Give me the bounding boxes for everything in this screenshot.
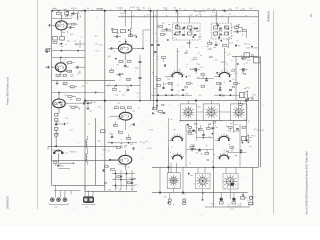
right margin fold line: [273, 10, 275, 214]
misc parts between V10 V12: [224, 145, 241, 156]
wire wafer interconnect: [197, 111, 231, 113]
label strip T1 header: [193, 10, 205, 17]
svg-text:EL84: EL84: [147, 14, 151, 16]
svg-text:R2: R2: [227, 39, 229, 41]
svg-text:2k2: 2k2: [164, 84, 167, 86]
capacitor C35: [198, 149, 201, 152]
wire V10 side vertical: [239, 124, 241, 167]
capacitor C5: [45, 66, 49, 69]
header text Ferson 8000 Radio.mod: [6, 77, 10, 105]
svg-text:2k2: 2k2: [212, 12, 215, 14]
resistor R27: [235, 27, 243, 29]
svg-text:T1: T1: [123, 166, 125, 168]
wire switch2 drops: [85, 185, 93, 196]
wire V2 anode up: [60, 57, 61, 63]
wire tone arm upper: [212, 121, 214, 167]
svg-text:C12: C12: [217, 111, 220, 113]
svg-text:R1: R1: [143, 143, 145, 145]
node J13: [159, 192, 161, 194]
svg-text:R1: R1: [59, 26, 61, 28]
resistor R43: [207, 125, 211, 129]
svg-text:T1: T1: [54, 138, 56, 140]
wire out row 2: [228, 152, 247, 153]
terminal TB1: [168, 193, 171, 205]
capacitor C17: [139, 62, 142, 79]
label cluster right bottom: [243, 196, 255, 202]
capacitor C26: [182, 89, 185, 92]
svg-text:EL84: EL84: [135, 68, 139, 70]
wire det row: [107, 142, 137, 143]
svg-text:2k2: 2k2: [122, 95, 125, 97]
resistor R14: [55, 119, 58, 122]
svg-text:5k6: 5k6: [164, 197, 167, 199]
resistor R7: [56, 75, 67, 77]
misc parts top-right corner: [242, 46, 253, 64]
wire vertical bus C: [104, 11, 106, 192]
label cluster V3: [63, 82, 97, 112]
switch wafer S1b: [203, 104, 219, 121]
node J4: [176, 10, 178, 12]
svg-text:ECH81: ECH81: [216, 31, 222, 33]
svg-text:300: 300: [124, 147, 127, 149]
wire right drop to output: [252, 167, 254, 205]
svg-text:C22: C22: [136, 93, 139, 95]
svg-text:2k2: 2k2: [130, 144, 133, 146]
resistor R39: [117, 147, 121, 149]
svg-text:29/09/2002: 29/09/2002: [6, 195, 10, 209]
svg-text:R2: R2: [214, 9, 216, 11]
wire padder column: [139, 55, 140, 101]
svg-text:50p: 50p: [132, 111, 135, 113]
capacitor C3: [67, 26, 75, 29]
component row above V5: [115, 107, 132, 113]
node J7: [104, 100, 106, 102]
svg-text:EF41: EF41: [246, 88, 251, 90]
svg-text:EM80: EM80: [161, 31, 166, 33]
component small box on bus C: [101, 130, 106, 133]
capacitor C16: [127, 86, 130, 91]
svg-text:0.1: 0.1: [88, 124, 91, 126]
resistor R29: [208, 40, 212, 44]
terminal box right: [254, 57, 260, 63]
node A: [235, 45, 240, 48]
wire AGC junction row: [52, 50, 86, 51]
svg-text:R7: R7: [185, 28, 187, 30]
T2 trimmer caps: [219, 28, 222, 35]
label right mid: [241, 69, 264, 138]
misc parts above V10: [213, 120, 237, 135]
terminal strip right: [241, 193, 245, 200]
svg-text:100k: 100k: [247, 60, 251, 62]
capacitor C33: [192, 129, 195, 132]
svg-text:0.05: 0.05: [95, 50, 99, 52]
label cluster right edge: [246, 44, 259, 64]
svg-text:R2: R2: [127, 167, 129, 169]
svg-text:300: 300: [154, 89, 157, 91]
svg-text:220p: 220p: [70, 87, 74, 89]
wire osc bottom row: [152, 95, 176, 96]
capacitor C10: [55, 121, 58, 125]
wire right column down: [235, 56, 237, 100]
svg-text:4k7: 4k7: [127, 137, 130, 139]
misc parts V2 area: [52, 64, 77, 77]
capacitor C2: [71, 12, 77, 14]
svg-text:5k6: 5k6: [86, 8, 89, 10]
resistor R15: [55, 128, 58, 131]
wire top secondary bus: [118, 16, 259, 18]
resistor R17: [54, 162, 57, 167]
label strip T2 header: [212, 11, 228, 15]
svg-text:R2: R2: [197, 77, 199, 79]
node J2: [104, 10, 106, 12]
wire T2 drop right: [227, 17, 229, 23]
coil L3: [86, 148, 87, 165]
svg-text:IF280505: IF280505: [267, 10, 271, 22]
wire V9 grid vertical: [185, 124, 187, 167]
svg-text:0.1: 0.1: [228, 204, 231, 206]
misc parts bias chain: [55, 114, 60, 142]
wire AF vertical left: [168, 118, 170, 146]
resistor R8: [63, 83, 67, 85]
svg-text:5k6: 5k6: [228, 9, 231, 11]
tube V9 AF driver dome: [170, 134, 184, 141]
T2 secondary coil: [225, 26, 229, 35]
svg-text:EM80: EM80: [118, 164, 123, 166]
cluster left of wafers: [153, 105, 166, 114]
resistor R49: [201, 74, 205, 80]
svg-text:50p: 50p: [108, 142, 111, 144]
resistor R3: [53, 37, 65, 40]
wire V10 grid vertical: [233, 121, 235, 133]
capacitor C18: [163, 28, 171, 31]
svg-text:4k7: 4k7: [95, 92, 98, 94]
svg-text:R7: R7: [71, 8, 73, 10]
wire V6 down: [124, 164, 126, 170]
svg-text:50p: 50p: [99, 45, 102, 47]
resistor R16: [55, 130, 58, 136]
coil L1: [77, 11, 78, 20]
capacitor C27: [219, 84, 222, 90]
wire tone arm vertical: [212, 167, 214, 207]
wire V7 cathode row: [167, 95, 192, 96]
resistor R37: [119, 132, 123, 134]
wire second bus ticks: [122, 15, 245, 17]
wire bottom chassis segment: [85, 190, 137, 192]
svg-text:xxxx: xxxx: [230, 209, 234, 211]
capacitor C8: [65, 102, 92, 105]
wire switch drops: [54, 185, 81, 197]
wire right frame inner: [259, 56, 261, 167]
svg-text:file:///C|/WINDOWS/Desktop/mod: file:///C|/WINDOWS/Desktop/mod/Ferson 80…: [306, 151, 309, 214]
svg-text:R15: R15: [52, 150, 55, 152]
svg-text:EABC80: EABC80: [257, 129, 264, 132]
wire k stub: [80, 41, 85, 49]
wire V8 cathode row: [214, 95, 240, 96]
node J10: [245, 100, 247, 102]
wire oscillator vertical 1: [150, 11, 152, 101]
wire osc row: [52, 92, 105, 93]
label cluster V13: [52, 150, 76, 168]
svg-text:C4: C4: [60, 12, 62, 14]
label cluster belowT2: [208, 42, 247, 51]
svg-text:EL84: EL84: [149, 129, 153, 131]
wire top tick marks: [55, 9, 241, 11]
svg-text:T1: T1: [138, 108, 140, 110]
antenna terminal: [52, 8, 61, 11]
IF transformer T2 box: [211, 23, 231, 39]
wire oscillator vertical 3: [156, 11, 158, 110]
svg-text:C12: C12: [176, 13, 179, 15]
svg-text:100k: 100k: [229, 42, 233, 44]
tube V5 IF amp EF41: [119, 112, 132, 120]
misc parts V7 area: [173, 64, 200, 94]
resistor R50: [201, 86, 205, 88]
capacitor C20: [162, 82, 165, 88]
svg-text:470k: 470k: [214, 15, 218, 17]
page number 1/1: [309, 13, 313, 17]
node J12: [168, 167, 170, 169]
resistor R40: [117, 176, 131, 184]
resistor R31: [239, 101, 243, 106]
label cluster V1: [59, 8, 77, 43]
svg-text:4k7: 4k7: [164, 9, 167, 11]
wire bias line: [48, 145, 118, 147]
capacitor C34: [202, 130, 205, 135]
svg-text:100k: 100k: [120, 47, 124, 49]
switch wafer S2a: [167, 173, 180, 189]
wire oscillator vertical 2: [153, 11, 155, 110]
capacitor C13: [108, 47, 118, 50]
resistor R47: [242, 127, 246, 129]
capacitor C22: [215, 41, 218, 45]
svg-text:AZ41: AZ41: [222, 61, 227, 64]
capacitor C28: [229, 89, 232, 92]
svg-text:10n: 10n: [199, 95, 202, 97]
wire AF row 3: [186, 149, 213, 150]
misc parts T2 innards: [214, 23, 233, 38]
svg-text:EF41: EF41: [242, 69, 247, 71]
svg-text:C22: C22: [62, 62, 65, 64]
svg-text:1M: 1M: [190, 14, 193, 16]
resistor R28: [243, 30, 247, 32]
svg-text:C4: C4: [236, 41, 238, 43]
capacitor C23 big: [192, 68, 200, 71]
svg-text:R7: R7: [57, 76, 59, 78]
resistor R26: [157, 79, 161, 87]
svg-text:300: 300: [135, 185, 138, 187]
misc parts osc coil area: [111, 28, 137, 42]
svg-text:4k7: 4k7: [188, 76, 191, 78]
label cluster V7: [167, 59, 203, 97]
svg-text:EABC80: EABC80: [89, 101, 96, 104]
svg-text:4k7: 4k7: [197, 31, 200, 33]
svg-text:C22: C22: [61, 40, 64, 42]
tube V4 converter ECH81: [118, 44, 132, 53]
svg-text:EF41: EF41: [197, 107, 202, 109]
resistor R25: [162, 57, 166, 63]
switch wafer S2c: [223, 174, 238, 190]
caption bracket P1: [82, 204, 96, 208]
wire vertical bus B: [84, 11, 86, 192]
svg-text:EABC80: EABC80: [70, 150, 77, 153]
caption bracket S3: [49, 203, 68, 208]
label strip second bus: [120, 13, 231, 17]
svg-text:EL84: EL84: [246, 47, 250, 49]
wire T1 drop left: [177, 11, 179, 23]
resistor R9: [69, 86, 78, 88]
wire V4 anode to bus: [125, 10, 126, 26]
misc parts right of T2: [235, 25, 243, 36]
label cluster T1: [178, 28, 202, 39]
svg-text:2k2: 2k2: [191, 31, 194, 33]
svg-text:4k7: 4k7: [94, 36, 97, 38]
svg-text:470k: 470k: [237, 115, 241, 117]
node J16: [233, 198, 235, 200]
svg-text:R7: R7: [74, 41, 76, 43]
capacitor C30: [111, 133, 114, 137]
switch wafer S1c: [231, 104, 247, 121]
wire V1 cathode drop: [60, 30, 62, 36]
wire V8 anode: [224, 48, 226, 72]
svg-text:50p: 50p: [242, 8, 245, 10]
svg-text:300: 300: [208, 49, 211, 51]
wire output transformer feed: [232, 55, 259, 57]
resistor R38: [127, 134, 131, 139]
wire wafer feeds: [188, 101, 239, 104]
wire AF coupling vertical: [168, 146, 170, 173]
wire V4 anode up: [124, 39, 126, 44]
wire above V1: [52, 18, 72, 20]
svg-text:300: 300: [215, 60, 218, 62]
svg-text:4k7: 4k7: [145, 141, 148, 143]
svg-text:300: 300: [127, 78, 130, 80]
svg-text:R15: R15: [247, 201, 250, 203]
svg-text:R2: R2: [121, 7, 123, 9]
capacitor C12: [113, 35, 121, 38]
svg-text:ECH81: ECH81: [252, 48, 258, 50]
wire out row 1: [234, 130, 241, 132]
capacitor C1: [65, 11, 69, 15]
resistor R44: [190, 147, 194, 153]
resistor R2: [71, 23, 78, 25]
label cluster V8: [215, 60, 251, 87]
resistor R22: [113, 86, 117, 91]
svg-text:C22: C22: [54, 121, 57, 123]
speaker cluster lower: [242, 135, 249, 143]
wire left frame: [51, 11, 53, 186]
resistor R23: [157, 26, 163, 28]
misc parts T1 innards: [174, 24, 198, 39]
wire V6 feed: [124, 150, 126, 155]
speaker SP1: [240, 91, 248, 100]
wire V10 grid stub: [215, 140, 219, 142]
wire AVC line: [52, 79, 116, 81]
resistor R20: [110, 68, 114, 72]
resistor R18: [129, 35, 137, 37]
footer date text: [6, 195, 10, 209]
wire wafer S1b drop: [196, 121, 198, 140]
capacitor C32: [120, 176, 133, 183]
capacitor C38: [205, 79, 208, 82]
wire V7 anode: [176, 48, 178, 72]
svg-text:L4: L4: [154, 92, 156, 94]
wire heater line: [52, 160, 119, 162]
resistor R13: [55, 114, 58, 117]
svg-text:10n: 10n: [247, 44, 250, 46]
svg-text:C4: C4: [229, 30, 231, 32]
label cluster bias: [54, 118, 73, 139]
wire wafer2 feeds: [160, 163, 183, 193]
resistor R46: [229, 127, 233, 133]
capacitor C31: [132, 147, 135, 150]
misc parts osc cluster: [155, 25, 180, 41]
svg-text:5k6: 5k6: [207, 9, 210, 11]
misc parts V5 area: [109, 111, 131, 151]
svg-text:0.05: 0.05: [238, 205, 242, 207]
wire grid stub V1: [49, 24, 56, 26]
svg-text:xxxx: xxxx: [54, 206, 58, 208]
component row above tone: [103, 166, 114, 172]
capacitor C36: [236, 128, 239, 131]
node J5: [224, 10, 226, 12]
svg-text:0.05: 0.05: [200, 67, 204, 69]
wire heater row arrow: [58, 162, 75, 168]
coil L2: [86, 136, 87, 148]
svg-text:4k7: 4k7: [98, 106, 101, 108]
switch wafer S1a: [180, 104, 196, 121]
svg-text:C22: C22: [183, 193, 186, 195]
tone network grid: [112, 170, 135, 190]
svg-text:100k: 100k: [63, 9, 67, 11]
resistor R4: [45, 50, 49, 52]
svg-text:2k2: 2k2: [115, 95, 118, 97]
wire bottom-left frame: [52, 184, 105, 186]
wire HT+ top bus: [52, 10, 259, 12]
svg-text:470k: 470k: [210, 203, 214, 205]
svg-text:R15: R15: [81, 86, 84, 88]
svg-text:2k2: 2k2: [235, 8, 238, 10]
node J6: [84, 100, 86, 102]
wire V5 in: [110, 115, 119, 117]
node J14: [182, 192, 184, 194]
capacitor C11: [57, 164, 60, 167]
resistor R48: [230, 147, 234, 153]
wire IF mid row: [197, 78, 214, 79]
svg-text:R2: R2: [66, 118, 68, 120]
svg-text:T1: T1: [224, 12, 226, 14]
caption bracket S2: [227, 207, 242, 211]
band switch S3 contact b: [57, 198, 61, 202]
svg-text:T1: T1: [125, 92, 127, 94]
svg-text:R1: R1: [148, 8, 150, 10]
svg-text:AZ41: AZ41: [129, 44, 134, 47]
svg-text:100k: 100k: [74, 106, 78, 108]
misc parts osc verticals: [151, 54, 158, 96]
svg-text:1M: 1M: [162, 23, 165, 25]
wire wafer drops: [174, 189, 231, 200]
svg-text:10n: 10n: [78, 72, 81, 74]
wire speaker feed: [246, 101, 248, 140]
capacitor C29: [131, 123, 135, 126]
tube V2 mixer triode: [55, 63, 66, 72]
label strip top bus: [63, 7, 252, 11]
tube V6 detector EABC80: [119, 155, 132, 164]
misc parts right lower cluster: [241, 137, 252, 146]
misc parts tone area: [104, 165, 136, 191]
wire V1 anode: [60, 15, 62, 21]
svg-text:2k2: 2k2: [167, 79, 170, 81]
wire AF row 2: [197, 137, 214, 138]
